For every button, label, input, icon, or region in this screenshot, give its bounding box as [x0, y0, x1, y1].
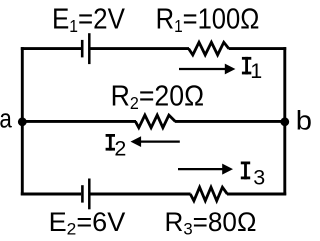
- svg-text:R3=80Ω: R3=80Ω: [165, 207, 257, 239]
- wire bottom-left segment: [21, 193, 81, 196]
- svg-text:b: b: [296, 105, 312, 135]
- wire right vertical: [283, 47, 286, 195]
- label I3: [241, 162, 265, 190]
- wire left vertical: [21, 47, 24, 195]
- current arrow I1: [179, 64, 235, 75]
- wire middle-right segment: [175, 120, 286, 123]
- svg-text:E1=2V: E1=2V: [52, 2, 126, 36]
- wire top-left segment: [21, 47, 81, 50]
- svg-text:R1=100Ω: R1=100Ω: [156, 2, 260, 36]
- node a: [18, 117, 27, 126]
- battery E1: [82, 33, 89, 64]
- svg-text:3: 3: [253, 165, 265, 189]
- wire bottom-right segment: [227, 193, 286, 196]
- node b: [280, 117, 289, 126]
- svg-text:R2=20Ω: R2=20Ω: [111, 79, 204, 113]
- resistor R1: [189, 42, 229, 55]
- current arrow I2: [131, 136, 180, 147]
- svg-text:a: a: [0, 105, 12, 134]
- label I1: [242, 57, 262, 83]
- wire top-right segment: [229, 47, 287, 50]
- resistor R3: [190, 187, 227, 201]
- current arrow I3: [178, 164, 233, 175]
- resistor R2: [135, 115, 175, 128]
- svg-text:E2=6V: E2=6V: [49, 207, 126, 238]
- wire bottom-mid segment: [90, 193, 190, 196]
- wire middle-left segment: [21, 120, 136, 123]
- svg-text:1: 1: [250, 59, 262, 83]
- svg-text:2: 2: [114, 136, 126, 160]
- battery E2: [82, 179, 89, 210]
- label I2: [106, 134, 127, 160]
- wire top-mid segment: [90, 47, 189, 50]
